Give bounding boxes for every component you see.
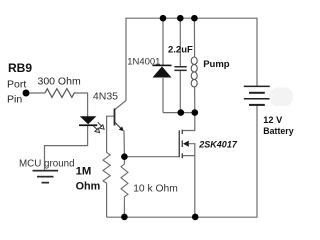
wire resistor to LED anode xyxy=(76,93,88,117)
node 10k to bottom rail xyxy=(121,214,128,221)
wire inductor bottom lead xyxy=(194,87,196,113)
svg-text:Pump: Pump xyxy=(203,59,230,70)
node diode to top rail xyxy=(160,15,167,22)
MOSFET Q 2SK4017 xyxy=(179,113,195,218)
inductor L pump coil xyxy=(191,57,197,87)
wire port pin to resistor xyxy=(26,92,45,94)
phototransistor emitter with arrow xyxy=(115,122,124,131)
wire 1M bottom lead xyxy=(106,185,108,217)
wire 1M top lead to base xyxy=(107,116,114,152)
svg-text:1M: 1M xyxy=(76,165,92,177)
resistor R 10 k Ohm xyxy=(121,157,128,203)
svg-text:4N35: 4N35 xyxy=(93,91,118,103)
body connection xyxy=(189,144,195,156)
resistor R 1M Ohm xyxy=(103,153,110,186)
wire 4N35 collector xyxy=(115,101,126,110)
node inductor to drain wire xyxy=(192,109,199,116)
svg-text:Port: Port xyxy=(7,78,26,90)
diode D 1N4001 xyxy=(153,65,172,78)
wire drain node xyxy=(163,112,195,114)
body arrow xyxy=(183,141,189,147)
gate bar xyxy=(179,130,180,157)
svg-text:RB9: RB9 xyxy=(8,61,32,75)
node inductor to top rail xyxy=(191,15,198,22)
wire gate node to MOSFET gate xyxy=(124,156,179,158)
wire capacitor bottom lead xyxy=(179,71,181,113)
channel segment body xyxy=(182,140,183,147)
phototransistor 4N35 base bar xyxy=(114,109,116,126)
svg-text:Battery: Battery xyxy=(263,126,293,136)
channel segment source side xyxy=(182,153,183,158)
node capacitor to top rail xyxy=(177,15,184,22)
svg-text:300 Ohm: 300 Ohm xyxy=(38,76,81,88)
svg-text:10 k Ohm: 10 k Ohm xyxy=(133,183,178,194)
svg-text:MCU ground: MCU ground xyxy=(19,158,75,169)
wire battery negative to bottom rail xyxy=(107,105,257,218)
drain lead xyxy=(183,113,195,131)
node capacitor to drain wire xyxy=(178,109,185,116)
svg-text:Ohm: Ohm xyxy=(76,181,101,193)
svg-text:2.2uF: 2.2uF xyxy=(168,44,193,55)
MCU ground symbol xyxy=(33,170,59,184)
wire emitter to gate node xyxy=(123,131,125,157)
node source to bottom rail xyxy=(192,214,199,221)
svg-text:1N4001: 1N4001 xyxy=(127,57,160,68)
node port pin terminal xyxy=(23,90,30,97)
wire top rail xyxy=(126,18,257,100)
battery B 12V plates xyxy=(244,86,270,106)
capacitor C 2.2uF plates xyxy=(174,66,186,71)
LED of optocoupler 4N35 xyxy=(79,116,97,126)
resistor R 300 Ohm xyxy=(45,89,76,98)
wire inductor top lead xyxy=(193,18,195,57)
svg-text:12 V: 12 V xyxy=(263,115,283,125)
svg-text:2SK4017: 2SK4017 xyxy=(198,139,238,149)
svg-text:Pin: Pin xyxy=(7,94,22,106)
wire diode top lead xyxy=(162,18,164,65)
wire diode bottom lead xyxy=(162,78,164,113)
LED light emission arrows xyxy=(93,122,104,132)
source lead xyxy=(183,156,195,218)
wire LED cathode to MCU ground xyxy=(45,126,88,170)
node emitter gate junction xyxy=(121,153,128,160)
wire capacitor top lead xyxy=(179,18,181,66)
wire 10k bottom lead xyxy=(123,203,125,217)
faint artifact blob right of battery xyxy=(270,88,294,107)
channel segment drain side xyxy=(182,130,183,134)
